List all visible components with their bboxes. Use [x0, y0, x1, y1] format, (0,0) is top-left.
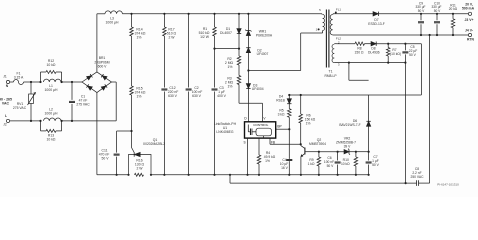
wire to V pin	[239, 102, 263, 104]
resistor R11	[452, 13, 454, 15]
svg-text:10 kΩ: 10 kΩ	[341, 162, 350, 166]
svg-text:630 V: 630 V	[168, 94, 178, 98]
svg-text:RTN: RTN	[467, 38, 475, 42]
svg-text:UF4004: UF4004	[252, 87, 264, 91]
capacitor C4	[288, 154, 290, 159]
svg-text:UF4007: UF4007	[257, 52, 269, 56]
diode D8	[371, 42, 376, 46]
ground drop to Y-cap line	[229, 175, 231, 183]
svg-text:10 kΩ: 10 kΩ	[47, 138, 56, 142]
svg-text:50 V: 50 V	[327, 164, 335, 168]
svg-text:X0202MA2BL2: X0202MA2BL2	[143, 142, 165, 146]
svg-text:20 kΩ: 20 kΩ	[449, 7, 458, 11]
svg-text:CONTROL: CONTROL	[253, 123, 268, 127]
wire bottom input line	[10, 120, 41, 122]
svg-text:1/2 W: 1/2 W	[200, 35, 210, 39]
resistor R6	[300, 95, 302, 114]
bias return drop	[405, 63, 407, 184]
svg-text:50 V: 50 V	[372, 163, 380, 167]
resistor R2	[238, 49, 240, 56]
transformer primary winding	[321, 13, 323, 16]
wire bridge right to bottom line	[111, 81, 116, 83]
base line to feedback network	[305, 151, 319, 153]
svg-text:50 V: 50 V	[418, 9, 425, 13]
bias sense line	[289, 94, 300, 96]
svg-text:600 V: 600 V	[98, 65, 108, 69]
resistor R10	[355, 151, 357, 153]
svg-text:S: S	[244, 141, 246, 145]
svg-text:250 VAC: 250 VAC	[411, 175, 425, 179]
resistor R3	[237, 76, 241, 85]
svg-text:VAC: VAC	[2, 102, 10, 106]
svg-text:400 V: 400 V	[217, 94, 227, 98]
wire drain bus	[248, 70, 300, 72]
capacitor C9	[420, 13, 422, 15]
bias top drop	[420, 44, 422, 95]
wire bridge to top rail	[96, 14, 98, 72]
varistor RV1	[30, 82, 32, 94]
svg-text:1000 µH: 1000 µH	[45, 112, 58, 116]
svg-text:1000 µH: 1000 µH	[106, 21, 119, 25]
svg-text:2 W: 2 W	[136, 166, 143, 170]
bias to D6 jog	[348, 63, 350, 81]
resistor R5	[288, 109, 292, 118]
capacitor C1	[71, 82, 73, 100]
resistor R7	[387, 43, 389, 45]
svg-text:1%: 1%	[228, 65, 233, 69]
svg-text:ES3D-13-F: ES3D-13-F	[368, 22, 385, 26]
svg-text:50 V: 50 V	[409, 53, 417, 57]
svg-text:FL1: FL1	[336, 8, 342, 12]
capacitor C12	[161, 88, 167, 90]
svg-text:16 V: 16 V	[281, 166, 289, 170]
svg-text:3 kΩ: 3 kΩ	[278, 113, 285, 117]
svg-text:275 VAC: 275 VAC	[13, 106, 27, 110]
diode D3	[247, 71, 249, 84]
svg-text:1%: 1%	[265, 159, 270, 163]
wire S pin to ground	[247, 138, 249, 175]
top HV rail	[97, 13, 105, 15]
svg-text:1%: 1%	[137, 95, 142, 99]
wire top input line	[10, 81, 14, 83]
svg-text:39 V: 39 V	[344, 144, 352, 148]
svg-text:1%: 1%	[137, 36, 142, 40]
wire R1-D1 junction bus	[215, 48, 240, 50]
resistor R17	[163, 13, 165, 15]
diode D4	[288, 95, 290, 99]
capacitor C2	[188, 13, 190, 15]
svg-text:50 V: 50 V	[102, 157, 110, 161]
svg-text:1 kΩ: 1 kΩ	[308, 162, 315, 166]
resistor R4	[258, 138, 260, 155]
ground rail	[97, 174, 129, 176]
svg-text:50 V: 50 V	[434, 9, 441, 13]
capacitor C6	[337, 151, 339, 153]
resistor R12	[40, 72, 42, 82]
svg-text:500 mA: 500 mA	[462, 7, 475, 11]
terminal J3 V+	[468, 12, 471, 15]
svg-text:BP: BP	[277, 125, 281, 129]
transformer T1 core	[325, 10, 327, 68]
svg-text:630 V: 630 V	[192, 94, 202, 98]
svg-text:J2: J2	[3, 122, 7, 126]
TVS WR1	[247, 13, 249, 15]
capacitor C3	[213, 48, 215, 50]
svg-text:DL4007: DL4007	[220, 31, 232, 35]
bias top line	[337, 43, 356, 45]
inductor L1	[44, 79, 61, 82]
svg-text:J3 V+: J3 V+	[465, 18, 474, 22]
diode D2	[246, 48, 250, 53]
resistor R14	[130, 13, 132, 15]
bias bottom line	[337, 62, 406, 64]
svg-text:1000 µH: 1000 µH	[45, 88, 58, 92]
svg-text:J1: J1	[3, 75, 7, 79]
resistor R1	[213, 13, 215, 15]
capacitor C7	[356, 151, 369, 153]
svg-text:10 kΩ: 10 kΩ	[47, 63, 56, 67]
svg-text:275 VAC: 275 VAC	[76, 103, 90, 107]
resistor R15	[130, 86, 134, 95]
wire BP pin	[276, 128, 290, 130]
wire FB pin	[269, 138, 271, 144]
diode D1	[238, 13, 240, 15]
capacitor C11	[130, 130, 132, 132]
capacitor C5	[404, 43, 406, 45]
svg-text:J4 V-: J4 V-	[465, 28, 473, 32]
svg-text:RM8-LP: RM8-LP	[324, 74, 337, 78]
resistor R9	[318, 151, 320, 153]
svg-text:2 W: 2 W	[168, 36, 175, 40]
wire bridge to ground rail	[96, 93, 98, 175]
svg-text:LNK406EG: LNK406EG	[216, 130, 234, 134]
svg-text:1%: 1%	[228, 84, 233, 88]
resistor R13	[40, 121, 42, 131]
diode D7 output	[333, 13, 373, 15]
svg-text:150 Ω: 150 Ω	[355, 50, 364, 54]
resistor R8	[355, 42, 365, 45]
capacitor C10	[436, 13, 438, 15]
svg-text:1%: 1%	[306, 122, 311, 126]
inductor L2	[44, 118, 61, 121]
svg-text:RS1B: RS1B	[276, 99, 285, 103]
svg-text:PI-6147-101310: PI-6147-101310	[437, 182, 459, 186]
svg-text:P6KE200A: P6KE200A	[256, 33, 273, 37]
svg-text:(10 kΩ): (10 kΩ)	[390, 52, 401, 56]
connector J1	[6, 80, 9, 83]
svg-text:DL4936: DL4936	[368, 50, 380, 54]
diode D6	[368, 126, 370, 151]
inductor L3	[105, 11, 122, 14]
svg-text:MMBT3904: MMBT3904	[309, 142, 326, 146]
secondary RTN drop	[429, 34, 431, 36]
svg-text:3.15 A: 3.15 A	[14, 76, 24, 80]
connector J2	[6, 119, 9, 122]
svg-text:L: L	[5, 114, 7, 118]
svg-text:BAV21WS-7-F: BAV21WS-7-F	[339, 123, 360, 127]
